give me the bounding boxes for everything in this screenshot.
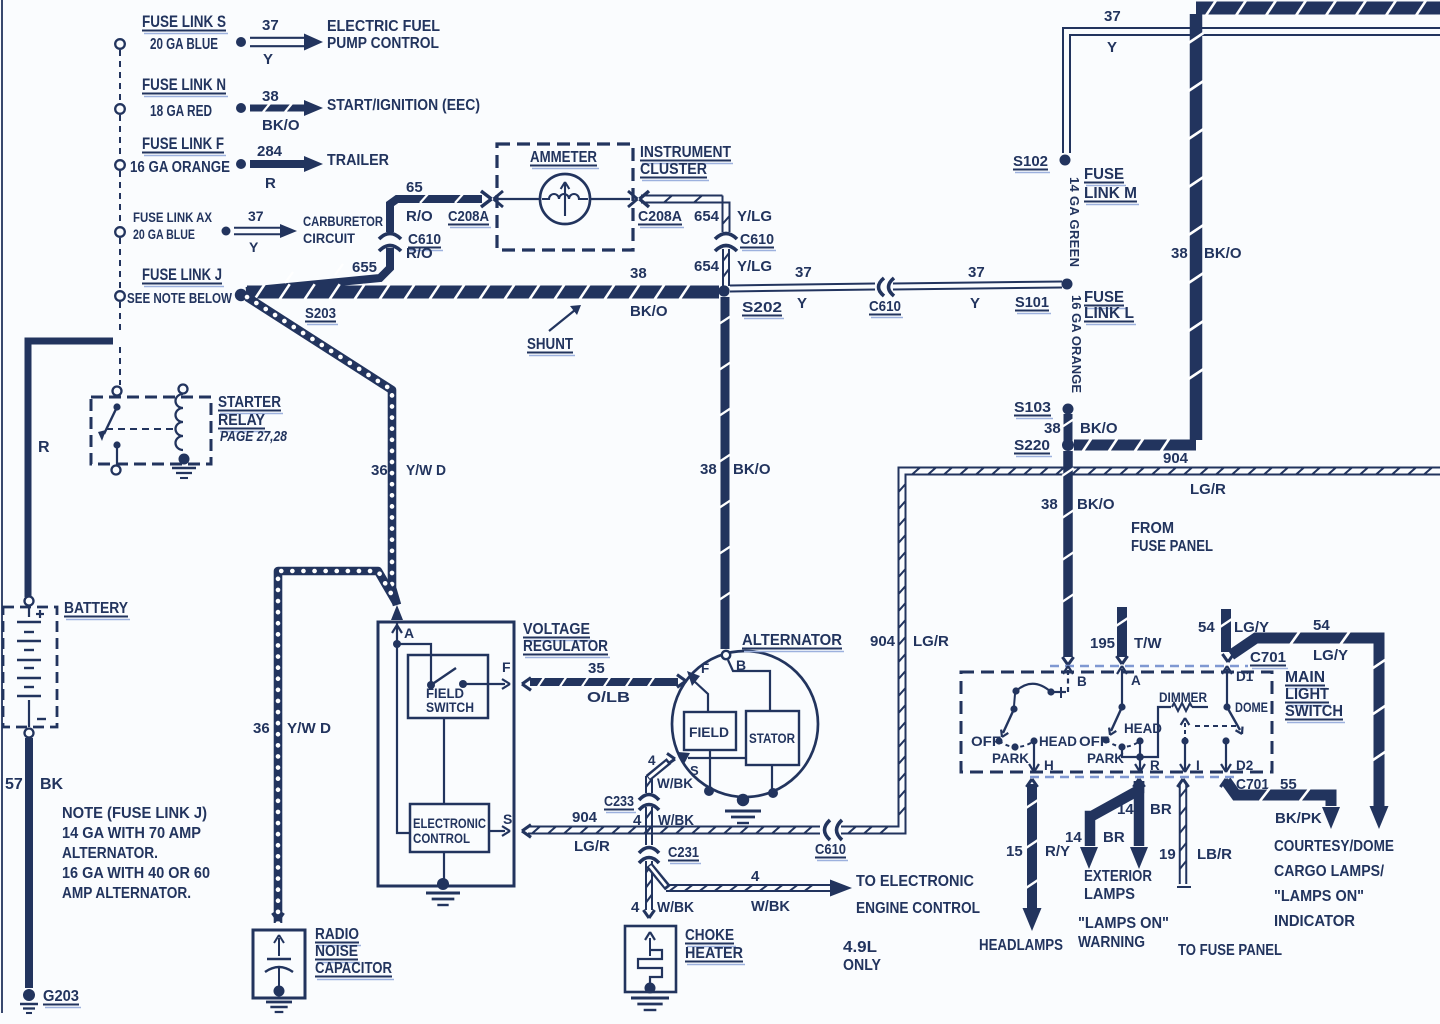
node S102 splice dot [1060,155,1071,166]
svg-text:LINK L: LINK L [1084,305,1134,322]
svg-text:SWITCH: SWITCH [426,700,474,715]
wire 14 BR exterior lamps left branch [1133,779,1139,787]
svg-text:904: 904 [870,633,896,650]
svg-text:C208A: C208A [448,208,489,225]
node S220 splice dot [1062,439,1074,451]
wire A branch down to electronic control [397,644,410,833]
svg-text:16 GA ORANGE: 16 GA ORANGE [1069,295,1084,393]
svg-text:REGULATOR: REGULATOR [523,638,608,655]
svg-text:37: 37 [262,17,279,34]
svg-text:S103: S103 [1014,399,1051,416]
terminal R arrow [1139,744,1141,760]
svg-text:S102: S102 [1013,153,1048,170]
svg-text:S101: S101 [1015,294,1049,311]
svg-text:R: R [38,439,50,456]
gang 2 contacts OFF PARK HEAD [1102,736,1109,743]
svg-text:BK/O: BK/O [630,303,668,320]
starter relay switch blade [113,387,122,396]
svg-text:"LAMPS ON": "LAMPS ON" [1274,888,1364,905]
wire 195 T/W from fuse panel [1117,607,1127,657]
wire 36 Y/WD dotted from radio noise capacitor junction [278,571,396,923]
svg-text:C208A: C208A [638,208,682,225]
svg-text:BK/O: BK/O [262,117,300,134]
svg-text:S: S [503,811,512,827]
svg-text:BK: BK [40,776,64,793]
connector C610 on Y/LG wire [715,234,737,240]
field coil box [684,712,736,750]
svg-text:CARGO LAMPS/: CARGO LAMPS/ [1274,863,1385,880]
ammeter coil and needle [542,194,588,199]
wire 38 BK/O from S202 down to alternator B [721,297,730,649]
svg-text:BR: BR [1150,801,1172,818]
wire 38 BK/O S103 to S220 [1064,414,1073,441]
svg-text:LB/R: LB/R [1197,846,1232,863]
battery B1 box [3,607,57,727]
connector C610 on R/O wire [379,234,401,240]
svg-text:C610: C610 [869,298,901,315]
wire field switch to F terminal [463,683,505,685]
svg-text:SHUNT: SHUNT [527,336,573,353]
node - fuse link AX splice dot [222,227,231,236]
svg-text:WARNING: WARNING [1078,934,1145,951]
svg-text:14 GA GREEN: 14 GA GREEN [1067,177,1082,267]
svg-text:4.9L: 4.9L [843,939,877,956]
battery cells [28,606,30,617]
svg-text:R/O: R/O [406,245,433,262]
svg-text:F: F [701,661,709,676]
svg-text:37: 37 [1104,8,1121,25]
terminal A arrow into voltage regulator [391,605,403,620]
svg-text:ELECTRIC FUEL: ELECTRIC FUEL [327,18,440,35]
svg-text:CAPACITOR: CAPACITOR [315,960,392,977]
svg-text:BK/O: BK/O [1080,420,1118,437]
wire 4 W/BK from C233 to C231 [645,807,647,845]
dimmer rheostat [1122,707,1171,757]
wire R from fuse link column to battery [28,341,113,597]
electronic control box [410,804,489,852]
connector C701 top dashed line [1050,665,1248,668]
svg-text:Y: Y [249,239,259,255]
terminal F arrowhead into alternator [687,671,700,686]
wire 4 W/BK from alternator S to C233 [667,753,675,759]
starter relay actuating link dashed [106,428,176,430]
starter relay K1 box [91,397,211,464]
field switch contacts and blade [427,681,435,689]
svg-text:DIMMER: DIMMER [1159,690,1207,705]
wire 15 R/Y headlamps [1026,779,1032,787]
wire 655 R/O from fuse link J up to C610 [246,248,390,291]
wire 654 Y/LG from instrument cluster to C610 [641,195,723,197]
svg-text:BK/PK: BK/PK [1275,810,1322,827]
svg-text:C233: C233 [604,793,634,810]
wire ammeter leads [497,198,540,200]
svg-text:STATOR: STATOR [749,731,795,746]
svg-text:37: 37 [968,264,985,281]
svg-text:MAIN: MAIN [1285,669,1325,686]
svg-text:B: B [1077,674,1087,689]
svg-text:ENGINE CONTROL: ENGINE CONTROL [856,900,980,917]
svg-text:SWITCH: SWITCH [1285,703,1343,720]
wire 54 LG/Y into D1 [1221,609,1231,652]
svg-text:19: 19 [1159,846,1176,863]
svg-text:AMP ALTERNATOR.: AMP ALTERNATOR. [62,885,191,902]
svg-text:W/BK: W/BK [657,776,693,791]
svg-text:4: 4 [648,753,656,768]
field switch box [408,655,488,718]
svg-text:EXTERIOR: EXTERIOR [1084,868,1152,885]
svg-text:38: 38 [1171,245,1188,262]
node - fuse link AX terminal circle [115,227,125,237]
svg-text:DOME: DOME [1235,700,1268,715]
svg-text:BK/O: BK/O [1204,245,1242,262]
node - fuse link S splice dot [236,37,246,47]
wire 14 BR exterior lamps right branch [1134,781,1145,846]
wire 4 W/BK from C231 down to choke heater [645,861,647,910]
svg-text:14 GA WITH 70 AMP: 14 GA WITH 70 AMP [62,825,201,842]
svg-text:PUMP CONTROL: PUMP CONTROL [327,35,439,52]
svg-text:CHOKE: CHOKE [685,927,734,944]
terminal B arrow [1067,669,1069,692]
svg-text:A: A [1131,673,1141,688]
svg-text:FUSE LINK S: FUSE LINK S [142,13,226,31]
svg-text:LG/R: LG/R [913,633,949,650]
svg-text:TO FUSE PANEL: TO FUSE PANEL [1178,942,1282,959]
svg-text:LG/R: LG/R [574,838,610,855]
wire S220 to 38 BK/O riser [1074,440,1196,451]
wire - fuse link AX arrow to carburetor circuit [234,227,281,229]
starter relay coil [179,385,188,394]
svg-text:S203: S203 [305,305,336,322]
svg-text:38: 38 [1041,496,1058,513]
svg-text:904: 904 [572,809,598,826]
node - fuse link F terminal circle [115,160,125,170]
page border line [1,0,3,1013]
radio noise capacitor C1 box [272,913,278,921]
svg-text:R/O: R/O [406,208,433,225]
wire 37 Y from S202 to C610 [730,284,875,286]
svg-text:20 GA BLUE: 20 GA BLUE [133,227,195,242]
wire 38 BK/O top right thick [1196,2,1440,15]
connector C610 on 37 Y wire [879,278,885,296]
wire - fuse link S arrow to electric fuel pump control [250,37,304,39]
ground - voltage regulator [437,878,449,890]
wire 54 LG/Y from D1 to courtesy lamps arrow [1231,638,1373,655]
svg-text:G203: G203 [43,988,79,1005]
svg-text:35: 35 [588,660,605,677]
node - fuse link N splice dot [236,103,246,113]
svg-text:16 GA WITH 40 OR 60: 16 GA WITH 40 OR 60 [62,865,210,882]
svg-text:HEATER: HEATER [685,945,743,962]
svg-text:14: 14 [1117,801,1134,818]
wire stator to ground dot [771,765,773,790]
connector C701 bottom dashed line [1030,776,1235,779]
svg-text:Y: Y [797,295,807,312]
svg-text:LG/R: LG/R [1190,481,1226,498]
svg-text:R: R [265,175,276,192]
battery plus sign [36,613,44,615]
svg-text:284: 284 [257,143,283,160]
svg-text:TRAILER: TRAILER [327,152,389,169]
node A junction dot [393,640,401,648]
svg-text:CLUSTER: CLUSTER [640,161,707,178]
svg-text:STARTER: STARTER [218,394,281,411]
svg-text:LIGHT: LIGHT [1285,686,1329,703]
svg-text:LINK M: LINK M [1084,185,1137,202]
svg-text:BK/O: BK/O [733,461,771,478]
svg-text:W/BK: W/BK [751,898,790,915]
connector C208A left chevrons [481,191,492,199]
node - fuse link F splice dot [236,159,246,169]
switch gang 3 dome blade [1226,692,1228,704]
svg-text:S220: S220 [1014,437,1050,454]
wire - fuse link F arrow to trailer [250,160,305,168]
svg-text:37: 37 [248,208,264,224]
svg-text:38: 38 [1044,420,1061,437]
svg-text:FUSE PANEL: FUSE PANEL [1131,538,1213,555]
svg-text:CARBURETOR: CARBURETOR [303,214,383,229]
svg-text:904: 904 [1163,450,1189,467]
terminal D1 arrow [1226,669,1228,692]
svg-text:37: 37 [795,264,812,281]
ammeter M1 circle [540,174,590,224]
svg-text:LAMPS: LAMPS [1084,886,1135,903]
svg-text:20 GA BLUE: 20 GA BLUE [150,36,218,53]
svg-text:38: 38 [700,461,717,478]
svg-text:PARK: PARK [1087,751,1124,766]
svg-text:FUSE: FUSE [1084,166,1124,183]
svg-text:36: 36 [253,720,270,737]
terminal I arrow [1184,744,1186,760]
svg-text:A: A [404,625,414,641]
svg-text:54: 54 [1313,617,1330,634]
svg-text:FIELD: FIELD [689,725,729,740]
svg-text:FUSE LINK AX: FUSE LINK AX [133,210,212,225]
wire 57 BK battery to ground [25,738,33,988]
svg-text:18 GA RED: 18 GA RED [150,103,212,120]
svg-text:65: 65 [406,179,423,196]
wire 35 O/LB from VR F to alternator F [522,678,531,684]
svg-text:PAGE 27,28: PAGE 27,28 [220,429,288,445]
svg-text:NOTE (FUSE LINK J): NOTE (FUSE LINK J) [62,805,207,822]
connector C208A right chevrons [628,191,638,199]
wire - shunt 38 BK/O from fuse link J to S202 [247,286,719,299]
svg-text:INSTRUMENT: INSTRUMENT [640,144,731,161]
svg-text:C610: C610 [815,841,846,858]
wire 19 LB/R to fuse panel [1177,779,1183,787]
svg-text:38: 38 [630,265,647,282]
svg-text:ELECTRONIC: ELECTRONIC [413,816,486,831]
svg-text:VOLTAGE: VOLTAGE [523,621,590,638]
svg-text:O/LB: O/LB [587,689,630,706]
svg-text:FIELD: FIELD [426,686,464,701]
svg-text:ALTERNATOR.: ALTERNATOR. [62,845,158,862]
node - fuse link N terminal circle [115,104,125,114]
svg-text:INDICATOR: INDICATOR [1274,913,1355,930]
svg-text:4: 4 [751,868,760,885]
wire - fuse link N arrow to start/ignition [250,105,305,112]
ground - starter relay coil [179,454,190,465]
wire 37 Y top right [1063,28,1440,153]
svg-text:C231: C231 [668,844,699,861]
wire 55 BK/PK courtesy dome lamps [1220,779,1226,787]
node S101 splice dot [1062,279,1073,290]
terminal B circle on alternator [722,651,730,659]
stator box [746,711,799,765]
svg-text:655: 655 [352,259,377,276]
svg-text:START/IGNITION (EEC): START/IGNITION (EEC) [327,97,480,114]
svg-text:R: R [1150,758,1160,773]
wire 37 Y from C610 to S101 [893,282,1062,284]
svg-text:ALTERNATOR: ALTERNATOR [742,632,842,649]
svg-text:RADIO: RADIO [315,926,359,943]
svg-text:BR: BR [1103,829,1125,846]
svg-text:RELAY: RELAY [218,412,266,429]
terminal D2 contact and arrow [1222,737,1229,744]
terminal A arrow [1121,669,1123,692]
svg-text:ONLY: ONLY [843,957,882,974]
ground G203 [23,989,35,1001]
gang 1 contacts OFF PARK HEAD [995,737,1002,744]
svg-text:195: 195 [1090,635,1115,652]
svg-text:D2: D2 [1236,758,1253,773]
dimmer wiper arrow dashed [1184,723,1186,738]
node - fuse link J splice dot [235,289,247,301]
switch gang 2 blade [1121,692,1123,704]
svg-text:HEAD: HEAD [1124,721,1162,736]
svg-text:Y: Y [263,51,273,68]
wire electronic control to S terminal [489,830,505,832]
svg-text:FUSE LINK J: FUSE LINK J [142,266,222,284]
svg-text:36: 36 [371,462,388,479]
svg-text:57: 57 [5,776,23,793]
svg-text:H: H [1044,758,1054,773]
wire field to ground dot [709,750,711,788]
wire 65 R/O from C610 up to instrument cluster C208A [390,199,482,232]
svg-text:HEADLAMPS: HEADLAMPS [979,937,1063,954]
wire - fuse link feed column (dashed) [119,50,121,103]
starter relay lower contact [113,441,120,448]
terminal H arrow [1033,744,1035,760]
choke heater R1 box [625,926,676,992]
connector C610 on 904 wire [825,820,831,840]
wire 38 BK/O S220 down to main light switch B [1063,451,1073,657]
svg-text:Y/LG: Y/LG [737,258,772,275]
wire alternator B internal to stator [728,660,770,711]
svg-text:AMMETER: AMMETER [530,149,597,166]
alternator circle [672,651,818,797]
svg-text:FUSE LINK F: FUSE LINK F [142,135,224,153]
wire 904 LG/R from VR S to C610 [522,825,531,831]
capacitor symbol [278,938,280,956]
battery minus sign [37,718,46,720]
svg-text:CONTROL: CONTROL [413,831,470,846]
svg-text:CIRCUIT: CIRCUIT [303,231,356,246]
switch gang 1 blade to OFF [1003,709,1014,733]
svg-text:F: F [502,659,511,675]
ground - radio noise capacitor [274,986,285,997]
node S202 junction dot [718,285,729,296]
svg-text:38: 38 [262,88,279,105]
ground - choke heater [645,983,656,994]
node battery bottom circle [25,729,34,738]
wire 904 LG/R from C610 up and to fuse panel [841,468,1440,827]
svg-text:HEAD: HEAD [1039,734,1077,749]
wire 654 Y/LG from C610 to S202 [722,249,724,286]
voltage regulator VR box [378,622,514,886]
main light switch box [961,672,1272,772]
svg-text:NOISE: NOISE [315,943,358,960]
svg-text:W/BK: W/BK [657,899,694,916]
svg-text:OFF: OFF [1079,734,1109,749]
node - fuse link J terminal circle [115,291,125,301]
wire electronic control to ground [443,852,445,882]
svg-text:OFF: OFF [971,734,1001,749]
svg-text:"LAMPS ON": "LAMPS ON" [1078,915,1169,932]
wire field switch to electronic control [443,718,445,804]
wire 4 W/BK branch to electronic engine control [666,884,830,886]
svg-text:15: 15 [1006,843,1023,860]
svg-text:COURTESY/DOME: COURTESY/DOME [1274,838,1394,855]
svg-text:16 GA ORANGE: 16 GA ORANGE [130,159,230,176]
svg-text:Y/W D: Y/W D [406,462,446,479]
svg-text:FUSE: FUSE [1084,289,1124,306]
ground - alternator [737,794,749,806]
wire 36 Y/WD dotted from S203 to voltage regulator A [247,297,397,605]
svg-text:BATTERY: BATTERY [64,600,128,617]
dashed link to dome blade [1195,725,1236,727]
instrument cluster box [497,144,633,250]
svg-text:LG/Y: LG/Y [1313,647,1348,664]
svg-text:654: 654 [694,258,720,275]
node - fuse link S terminal circle [115,39,125,49]
connector C233 [639,795,659,801]
svg-text:14: 14 [1065,829,1082,846]
svg-text:TO ELECTRONIC: TO ELECTRONIC [856,873,974,890]
svg-text:BK/O: BK/O [1077,496,1115,513]
choke heater resistor element [649,938,651,956]
svg-text:D1: D1 [1236,669,1254,684]
svg-text:54: 54 [1198,619,1215,636]
svg-text:C610: C610 [740,231,774,248]
svg-text:Y: Y [970,295,980,312]
node battery top circle [25,597,34,606]
svg-text:654: 654 [694,208,720,225]
svg-text:T/W: T/W [1134,635,1162,652]
svg-text:FROM: FROM [1131,520,1174,537]
connector C231 [639,848,659,854]
svg-text:C701: C701 [1250,649,1286,666]
wire A to field switch [397,644,431,684]
svg-text:Y: Y [1107,39,1117,56]
svg-text:4: 4 [631,899,640,916]
svg-text:Y/W D: Y/W D [287,720,331,737]
svg-text:I: I [1196,758,1200,773]
svg-text:SEE NOTE BELOW: SEE NOTE BELOW [127,291,232,307]
svg-text:PARK: PARK [992,751,1029,766]
svg-text:Y/LG: Y/LG [737,208,772,225]
svg-text:S202: S202 [742,299,782,316]
terminal S arrowhead and wire inside alternator [688,757,746,759]
node S103 splice dot [1063,404,1074,415]
svg-text:FUSE LINK N: FUSE LINK N [142,76,226,94]
switch gang 1 arc from B [1016,684,1051,692]
